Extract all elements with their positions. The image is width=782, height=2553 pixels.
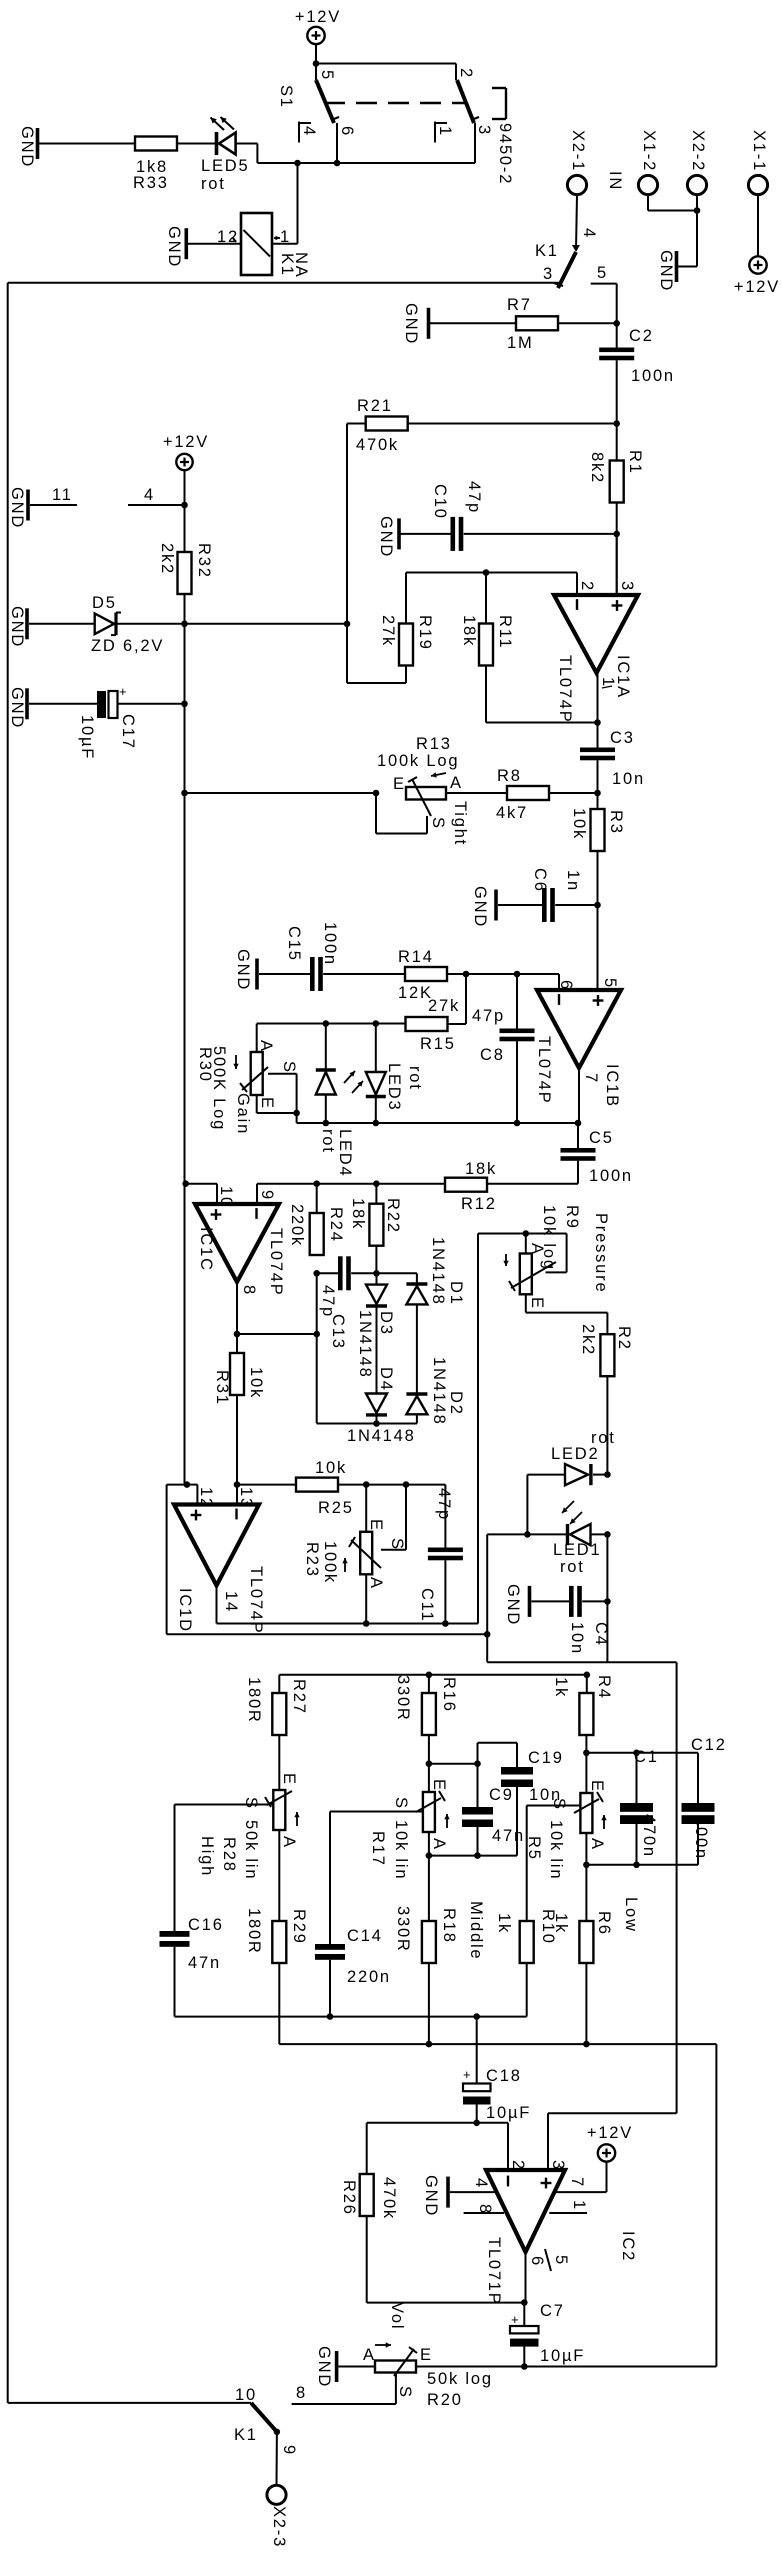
svg-text:R9: R9 (563, 1205, 581, 1230)
svg-text:E: E (280, 1773, 298, 1786)
svg-text:47p: 47p (435, 1488, 453, 1521)
svg-text:R21: R21 (357, 397, 393, 415)
svg-text:+12V: +12V (734, 278, 780, 296)
node junction output/C7 (521, 2299, 528, 2306)
svg-text:R26: R26 (340, 2180, 358, 2216)
svg-text:LED4: LED4 (336, 1129, 354, 1177)
wire X2-1 to K1 (576, 195, 577, 250)
feedback wire (237, 1333, 317, 1335)
wire R11 to output (485, 666, 487, 723)
wire clipper bottom rail (296, 1113, 298, 1123)
node junction relay pin1 (294, 160, 301, 167)
svg-text:GND: GND (377, 516, 395, 558)
node junction R23 A bottom (363, 1620, 370, 1627)
node junction S1 pin5 (313, 60, 320, 67)
svg-text:C18: C18 (486, 2067, 522, 2085)
resistor R24 (316, 1184, 318, 1213)
svg-text:500K Log: 500K Log (210, 1046, 228, 1131)
bus wire (wiper bus) (175, 2016, 527, 2018)
svg-text:GND: GND (234, 949, 252, 991)
svg-text:IC1C: IC1C (197, 1227, 215, 1272)
svg-text:R32: R32 (195, 543, 213, 579)
svg-text:10k: 10k (247, 1367, 265, 1399)
svg-text:100n: 100n (589, 1167, 633, 1185)
R17 S wire (330, 1811, 423, 1813)
svg-text:rot: rot (201, 175, 226, 193)
R5 S wire (527, 1805, 581, 1807)
svg-text:D3: D3 (377, 1311, 395, 1336)
pin8 output wire (236, 1282, 238, 1353)
svg-text:IC1D: IC1D (176, 1588, 194, 1633)
node junction C1 top (633, 1750, 640, 1757)
svg-text:IC2: IC2 (619, 2231, 637, 2262)
svg-text:A: A (257, 1040, 275, 1053)
switch S1 pin1 mark (434, 122, 436, 143)
node junction C18 bottom (473, 2120, 480, 2127)
node junction C8 top (514, 971, 521, 978)
svg-text:High: High (198, 1836, 216, 1877)
resistor R2 (600, 1334, 614, 1376)
svg-text:2: 2 (457, 68, 475, 79)
wire (338, 1484, 445, 1486)
svg-text:R2: R2 (615, 1326, 633, 1351)
wire to R10 (526, 1806, 528, 1922)
node junction Vref/D5 (181, 621, 188, 628)
Vref wire to IC2 (487, 1661, 676, 1663)
svg-text:2k2: 2k2 (579, 1324, 597, 1356)
wire (549, 792, 598, 794)
svg-text:13: 13 (237, 1487, 255, 1509)
pin3 wire (616, 534, 618, 595)
node junction C7 bottom (521, 2363, 528, 2370)
svg-text:1k: 1k (495, 1913, 513, 1934)
svg-text:4k7: 4k7 (496, 804, 528, 822)
svg-text:D2: D2 (447, 1391, 465, 1416)
node junction R16/R17/C9 rail (428, 1735, 430, 1764)
node junction LED3 top (373, 1020, 380, 1027)
node junction C9 top (474, 1760, 481, 1767)
terminal X2-3 (267, 2485, 286, 2504)
wire bypass (pole 3 to left rail) (8, 282, 559, 284)
svg-text:R24: R24 (327, 1207, 345, 1243)
wire to C14 (329, 1812, 331, 1945)
svg-text:220n: 220n (347, 1968, 391, 1986)
capacitor C15 (259, 973, 310, 975)
svg-text:1N4148: 1N4148 (429, 1237, 447, 1306)
wire (347, 423, 366, 425)
svg-text:10n: 10n (612, 770, 645, 788)
svg-text:LED5: LED5 (201, 157, 249, 175)
ground (left of R33) (36, 128, 40, 159)
svg-text:10k lin: 10k lin (547, 1820, 565, 1880)
svg-text:R4: R4 (595, 1675, 613, 1700)
Low E rail wire (586, 1752, 698, 1754)
svg-text:K1: K1 (234, 2426, 258, 2444)
svg-text:470n: 470n (640, 1814, 658, 1858)
wire (39, 143, 135, 145)
svg-text:470k: 470k (356, 436, 399, 454)
svg-text:D1: D1 (447, 1281, 465, 1306)
feedback rail wire (406, 572, 577, 574)
node junction R22 top (373, 1180, 380, 1187)
svg-text:220k: 220k (288, 1204, 306, 1247)
svg-text:rot: rot (406, 1066, 424, 1091)
node junction LED3 bottom (373, 1120, 380, 1127)
capacitor C14 (315, 1944, 345, 1950)
svg-text:12: 12 (197, 1487, 215, 1509)
capacitor C17 (electrolytic) (97, 691, 106, 718)
ground (X2-2) (675, 251, 679, 282)
svg-text:X2-3: X2-3 (270, 2506, 288, 2548)
LED LED4 (325, 1024, 327, 1071)
svg-text:ZD 6,2V: ZD 6,2V (91, 637, 164, 655)
svg-text:S: S (242, 1797, 260, 1810)
svg-text:C13: C13 (329, 1314, 347, 1350)
pin5 wire (597, 905, 599, 990)
potentiometer R17 (Middle) (428, 1764, 430, 1792)
pin9 wire (256, 1184, 258, 1204)
svg-text:X2-2: X2-2 (689, 130, 707, 172)
svg-text:R12: R12 (461, 1195, 497, 1213)
svg-text:47n: 47n (492, 1827, 525, 1845)
clipper left wire (316, 1273, 318, 1423)
pin7 wire (554, 2191, 607, 2193)
capacitor C9 (477, 1764, 479, 1808)
node junction R4/C1 rail (583, 1750, 590, 1757)
node junction R8/C3/R3 (594, 790, 601, 797)
output rail wire (416, 2366, 716, 2368)
svg-text:TL074P: TL074P (556, 655, 574, 724)
node junction LED4 top (323, 1020, 330, 1027)
node lever end (274, 2429, 280, 2435)
node junction Vref/pin10 (182, 1180, 189, 1187)
wire (616, 360, 618, 423)
wire LED2 left down (526, 1475, 528, 1535)
svg-text:1k: 1k (552, 1913, 570, 1934)
relay K1 coil (241, 213, 272, 275)
capacitor C12 (682, 1803, 715, 1812)
svg-text:E: E (393, 775, 406, 793)
wire R9 node (478, 1233, 526, 1235)
svg-text:R23: R23 (303, 1542, 321, 1578)
terminal X1-1 (748, 175, 767, 194)
tone rail wire (279, 1674, 587, 1676)
LED arrows (570, 1512, 582, 1524)
svg-text:GND: GND (471, 886, 489, 928)
capacitor C6 (498, 904, 542, 906)
resistor R29 (278, 1830, 280, 1921)
svg-text:C14: C14 (347, 1927, 383, 1945)
wire LED left to Vref (486, 1534, 488, 1662)
node junction R6 bus (583, 2041, 590, 2048)
svg-text:C5: C5 (589, 1129, 614, 1147)
svg-text:R17: R17 (369, 1831, 387, 1867)
wire (606, 1534, 608, 1662)
pin 11 stub wire with ground (26, 490, 30, 521)
svg-text:TL074P: TL074P (535, 1036, 553, 1105)
svg-text:C6: C6 (531, 868, 549, 893)
resistor R26 (366, 2123, 368, 2174)
node junction LED4 bottom (323, 1120, 330, 1127)
A rail wire low (586, 1864, 698, 1866)
svg-text:E: E (588, 1780, 606, 1793)
pin10 wire (186, 1183, 217, 1185)
wire to IC1D rail (477, 1234, 479, 1624)
power +12V (top) (307, 27, 324, 44)
svg-text:Tight: Tight (451, 801, 469, 846)
svg-text:X1-2: X1-2 (640, 130, 658, 172)
node junction C8 bottom (514, 1120, 521, 1127)
capacitor C16 (160, 1931, 190, 1937)
node junction LED2 right (604, 1471, 611, 1478)
node junction output/R31 (234, 1331, 241, 1338)
svg-text:5: 5 (318, 70, 336, 81)
wire (430, 322, 516, 324)
svg-text:K1: K1 (535, 242, 559, 260)
resistor R32 (178, 552, 192, 594)
terminal X2-2 (687, 175, 706, 194)
ground (C4) (528, 1586, 532, 1617)
svg-text:330R: 330R (394, 1906, 412, 1953)
svg-text:R28: R28 (220, 1837, 238, 1873)
ground (C10) (397, 518, 401, 549)
K1 output contact wire (8, 2402, 252, 2404)
pin3 wire (547, 2113, 549, 2170)
capacitor C4 (532, 1600, 570, 1602)
R28 S wire (175, 1804, 274, 1806)
wire (446, 792, 507, 794)
node junction C13/R24 (313, 1270, 320, 1277)
svg-text:D5: D5 (92, 594, 117, 612)
svg-text:C19: C19 (528, 1749, 564, 1767)
svg-text:IC1B: IC1B (603, 1064, 621, 1108)
A rail wire (428, 1832, 430, 1856)
resistor R10 (520, 1921, 534, 1963)
svg-text:R11: R11 (496, 615, 514, 649)
svg-text:+: + (119, 684, 128, 699)
ground (D5) (25, 608, 29, 639)
svg-text:Pressure: Pressure (592, 1213, 610, 1293)
svg-text:4: 4 (144, 486, 155, 504)
svg-text:S: S (392, 1797, 410, 1810)
opamp IC1A (554, 595, 638, 673)
svg-text:1N4148: 1N4148 (430, 1357, 448, 1426)
svg-text:+: + (463, 2067, 472, 2082)
resistor R19 (405, 573, 407, 625)
svg-text:R14: R14 (398, 948, 434, 966)
output rail wire (217, 1623, 479, 1625)
node junction R9 top (523, 1230, 530, 1237)
switch S1 mechanical link (dashed) (324, 102, 466, 105)
svg-text:A: A (363, 2346, 376, 2364)
wire R26 bottom (366, 2216, 368, 2303)
svg-text:18k: 18k (460, 615, 478, 647)
node junction R23 E (363, 1481, 370, 1488)
svg-text:R1: R1 (626, 450, 644, 475)
opamp IC1C (195, 1204, 279, 1282)
wire (606, 1376, 608, 1474)
relay contact K1 lever pin10-pin9 (251, 2403, 277, 2432)
svg-text:R19: R19 (416, 615, 434, 651)
R23 S wire (381, 1549, 406, 1551)
switch S1 frame mark (492, 87, 506, 89)
wire R29 bottom (278, 1963, 280, 2044)
pin4 wire with ground (446, 2177, 450, 2208)
contact mark pin4 (572, 245, 580, 252)
svg-text:rot: rot (560, 1558, 585, 1576)
svg-text:4: 4 (472, 2178, 490, 2189)
diode D3 (376, 1273, 378, 1284)
node junction Vref (484, 1631, 491, 1638)
svg-text:GND: GND (18, 126, 36, 168)
svg-text:1: 1 (280, 228, 291, 246)
clipper bottom wire (317, 1423, 417, 1425)
wire (647, 195, 649, 211)
svg-text:+: + (511, 2312, 520, 2327)
pin14 output wire (216, 1586, 218, 1624)
wire (177, 143, 216, 145)
svg-text:GND: GND (504, 1584, 522, 1626)
resistor R33 (135, 137, 177, 151)
wire R10 bottom (526, 1963, 528, 2017)
svg-text:GND: GND (315, 2346, 333, 2388)
svg-text:12: 12 (217, 228, 239, 246)
svg-text:E: E (420, 2346, 433, 2364)
wire R6 bottom (585, 1963, 587, 2044)
svg-text:10k lin: 10k lin (392, 1820, 410, 1880)
svg-text:50k lin: 50k lin (242, 1820, 260, 1880)
wire to C16 (174, 1805, 176, 1932)
svg-text:A: A (450, 774, 463, 792)
pin2 rail wire (367, 2122, 508, 2124)
svg-text:100k: 100k (321, 1541, 339, 1584)
resistor R16 (428, 1675, 430, 1693)
svg-text:C2: C2 (629, 327, 654, 345)
ground (C15) (255, 959, 259, 990)
svg-text:10µF: 10µF (540, 2347, 585, 2365)
svg-text:10k: 10k (315, 1459, 347, 1477)
svg-text:7: 7 (568, 2177, 586, 2188)
svg-text:C17: C17 (119, 714, 137, 750)
LED LED5 (215, 132, 219, 155)
svg-text:100n: 100n (631, 367, 675, 385)
svg-text:R16: R16 (440, 1677, 458, 1713)
svg-text:R18: R18 (440, 1908, 458, 1944)
capacitor C7 (electrolytic) (523, 2303, 525, 2326)
resistor R11 (485, 573, 487, 625)
svg-text:100n: 100n (692, 1816, 710, 1860)
svg-text:A: A (430, 1838, 448, 1851)
wire R31 bottom (236, 1395, 238, 1505)
opamp IC2 (486, 2170, 565, 2252)
node junction R30 S/E (293, 1110, 300, 1117)
node junction R24 top (313, 1180, 320, 1187)
svg-text:1n: 1n (564, 870, 582, 892)
node junction Vref rail (181, 790, 188, 797)
capacitor C11 (444, 1485, 446, 1548)
svg-text:8: 8 (476, 2204, 494, 2215)
svg-text:1M: 1M (507, 334, 534, 352)
svg-text:14: 14 (222, 1591, 240, 1613)
svg-text:R3: R3 (607, 810, 625, 835)
potentiometer R28 (High) (278, 1735, 280, 1790)
capacitor C1 (620, 1803, 653, 1812)
power +12V (X1-1) (749, 256, 766, 273)
node junction A rail (583, 1862, 590, 1869)
diode D4 (366, 1394, 387, 1413)
svg-text:5: 5 (552, 2255, 570, 2266)
svg-text:R29: R29 (290, 1909, 308, 1945)
svg-text:9: 9 (258, 1190, 276, 1201)
zener diode D5 (95, 614, 114, 635)
pin6 output wire (525, 2252, 527, 2303)
svg-text:C3: C3 (610, 729, 635, 747)
node junction output/C5 (575, 1120, 582, 1127)
capacitor C5 (577, 1123, 579, 1148)
ground (R7) (427, 308, 431, 339)
wire (597, 851, 599, 990)
resistor R6 (585, 1865, 587, 1921)
pin1 stub (549, 2212, 587, 2214)
node junction (694, 207, 701, 214)
node junction R13 pot (373, 790, 380, 797)
node junction LED1 left (524, 1531, 531, 1538)
node junction output/C3 (594, 719, 601, 726)
node junction Vref/pin12 (184, 1481, 191, 1488)
node junction D5 rail (344, 621, 351, 628)
node junction D3 top (373, 1270, 380, 1277)
svg-text:10n: 10n (568, 1622, 586, 1655)
svg-text:10: 10 (217, 1186, 235, 1208)
node junction C14 bottom (327, 2013, 334, 2020)
svg-text:R27: R27 (290, 1679, 308, 1715)
svg-text:+12V: +12V (163, 433, 209, 451)
wire (696, 195, 698, 267)
wire R22 bottom (375, 1246, 377, 1274)
svg-text:E: E (528, 1297, 546, 1310)
svg-text:4: 4 (300, 126, 318, 137)
resistor R27 (278, 1675, 280, 1693)
capacitor C13 (317, 1272, 338, 1274)
LED LED1 (566, 1524, 569, 1545)
node junction C9 bottom (474, 1852, 481, 1859)
bus wire (bottom bus) (279, 2043, 716, 2045)
svg-text:GND: GND (657, 250, 675, 292)
capacitor C2 (616, 323, 618, 347)
pin13 rail wire (237, 1484, 296, 1486)
node junction C10 (613, 531, 620, 538)
svg-text:LED3: LED3 (385, 1063, 403, 1111)
svg-text:C10: C10 (431, 484, 449, 520)
opamp IC1B (537, 990, 621, 1068)
E rail wire (429, 1763, 478, 1765)
svg-text:2: 2 (509, 2160, 527, 2171)
svg-text:C7: C7 (540, 2302, 565, 2320)
capacitor C18 (electrolytic) (476, 2017, 478, 2084)
R13 wiper loop wire (375, 793, 377, 834)
svg-text:18k: 18k (349, 1198, 367, 1230)
node junction R23 S (403, 1481, 410, 1488)
resistor R4 (586, 1675, 588, 1693)
svg-text:Gain: Gain (234, 1093, 252, 1135)
wire C5 to R12 (487, 1183, 578, 1185)
wire R23 A (365, 1574, 367, 1623)
svg-text:E: E (367, 1519, 385, 1532)
wire (188, 243, 241, 245)
wire (316, 63, 456, 65)
node junction R7/C2 (613, 320, 620, 327)
svg-text:1N4148: 1N4148 (356, 1310, 374, 1379)
